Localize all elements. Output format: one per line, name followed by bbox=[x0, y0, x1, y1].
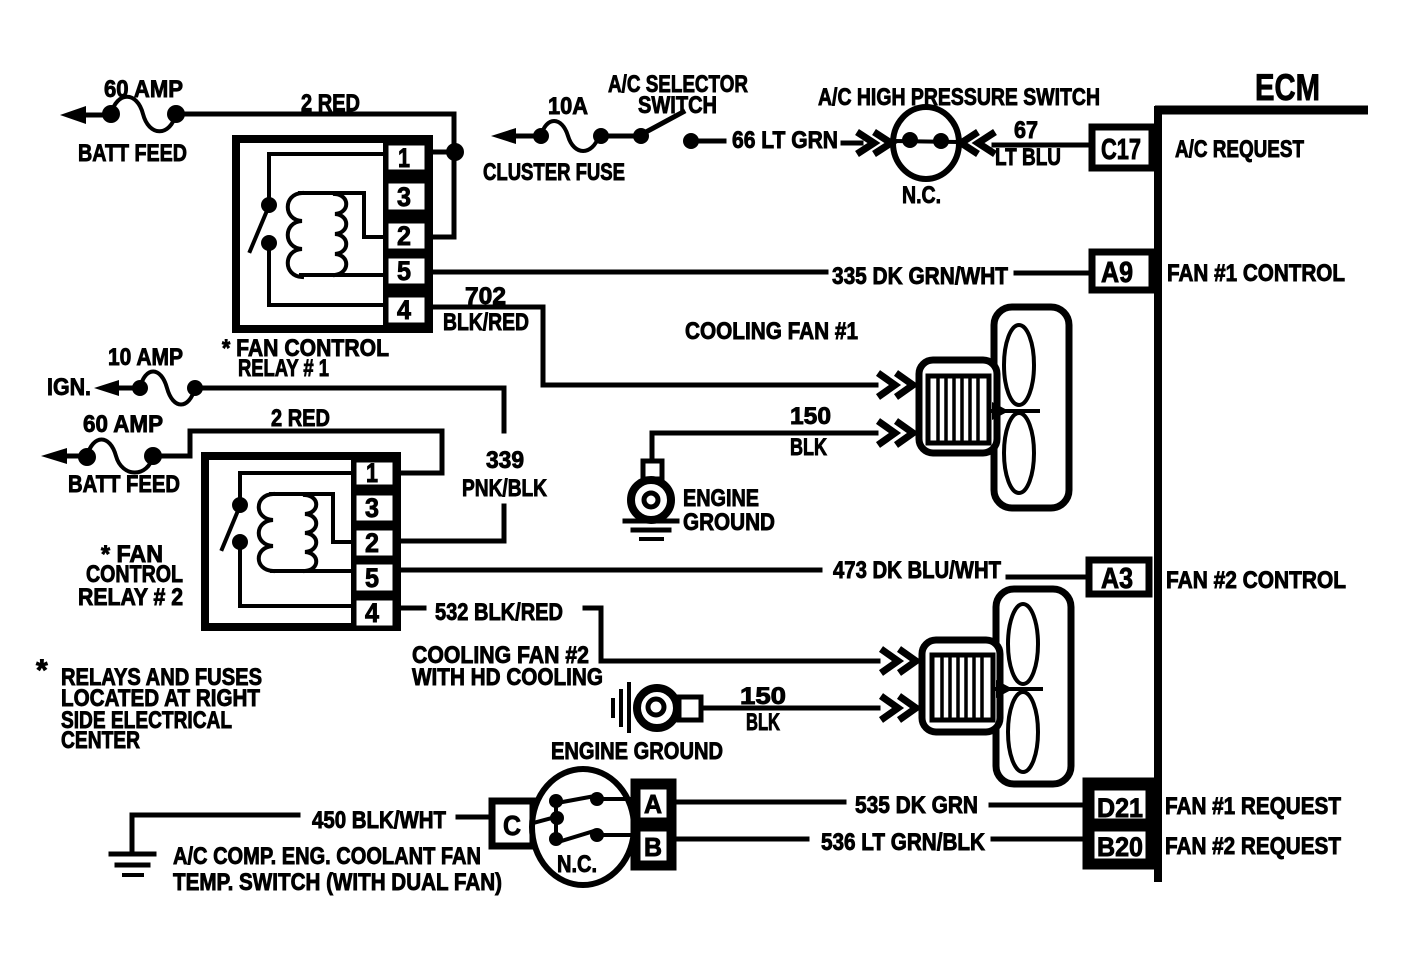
wire 535 right segment into D21 bbox=[991, 803, 1086, 808]
svg-text:COOLING FAN #1: COOLING FAN #1 bbox=[685, 318, 858, 345]
svg-text:B: B bbox=[644, 832, 662, 862]
relay K1 wire switch to pin4 bbox=[269, 250, 383, 305]
svg-text:ENGINE GROUND: ENGINE GROUND bbox=[551, 738, 723, 765]
svg-text:473 DK BLU/WHT: 473 DK BLU/WHT bbox=[833, 557, 1001, 584]
wire 473 DK BLU/WHT left segment bbox=[401, 568, 820, 573]
connector D21 box bbox=[1092, 788, 1148, 823]
svg-text:BATT FEED: BATT FEED bbox=[68, 471, 180, 498]
svg-text:450 BLK/WHT: 450 BLK/WHT bbox=[312, 807, 446, 834]
svg-text:339: 339 bbox=[486, 447, 524, 474]
svg-text:BLK: BLK bbox=[746, 709, 780, 736]
svg-text:2 RED: 2 RED bbox=[301, 90, 360, 117]
wire 67 LT BLU to C17 bbox=[994, 143, 1091, 148]
svg-text:C17: C17 bbox=[1101, 134, 1141, 166]
fuse F2 10A cluster fuse arrow bbox=[491, 128, 541, 144]
relay K1 pin 1 box bbox=[386, 143, 427, 173]
svg-text:WITH HD COOLING: WITH HD COOLING bbox=[412, 664, 603, 691]
wire IGN to 339 bbox=[203, 388, 504, 431]
svg-text:FAN #2 CONTROL: FAN #2 CONTROL bbox=[1166, 567, 1346, 594]
engine ground G2 symbol bbox=[613, 684, 701, 731]
wire 536 right segment into B20 bbox=[993, 837, 1086, 842]
connector A/B container bbox=[634, 782, 673, 867]
svg-text:1: 1 bbox=[398, 143, 410, 173]
relay K1 pin 5 box bbox=[386, 256, 427, 286]
connector B20 box bbox=[1092, 829, 1148, 862]
svg-text:CENTER: CENTER bbox=[61, 727, 140, 754]
svg-text:TEMP. SWITCH (WITH DUAL FAN): TEMP. SWITCH (WITH DUAL FAN) bbox=[173, 869, 502, 896]
svg-text:GROUND: GROUND bbox=[683, 509, 775, 536]
svg-text:N.C.: N.C. bbox=[902, 182, 941, 209]
relay K1 switch blade bbox=[250, 213, 266, 251]
svg-text:SWITCH: SWITCH bbox=[638, 92, 717, 119]
svg-text:A/C COMP. ENG. COOLANT FAN: A/C COMP. ENG. COOLANT FAN bbox=[173, 843, 481, 870]
connector C17 box bbox=[1092, 127, 1152, 168]
connector chevrons pressure switch right bbox=[961, 132, 995, 154]
connector A9 box bbox=[1092, 252, 1152, 290]
relay K2 pin 3 box bbox=[354, 493, 395, 523]
cooling fan M1 blades bbox=[992, 325, 1038, 493]
relay K2 coil bbox=[259, 494, 351, 571]
svg-text:532 BLK/RED: 532 BLK/RED bbox=[435, 599, 563, 626]
wire 536 LT GRN/BLK left segment bbox=[674, 837, 807, 842]
relay K2 pin 2 box bbox=[354, 528, 395, 558]
svg-text:1: 1 bbox=[366, 458, 378, 488]
fuse F2 10A symbol bbox=[533, 121, 609, 151]
relay K1 pin 3 box bbox=[386, 181, 427, 212]
svg-text:66 LT GRN: 66 LT GRN bbox=[732, 127, 838, 154]
wire 339 PNK/BLK to relay2 pin2 bbox=[401, 506, 504, 541]
svg-text:60 AMP: 60 AMP bbox=[83, 411, 163, 438]
connector chevrons fan2 top bbox=[881, 649, 916, 673]
svg-text:ENGINE: ENGINE bbox=[683, 485, 759, 512]
svg-text:2: 2 bbox=[397, 221, 411, 251]
svg-text:IGN.: IGN. bbox=[47, 374, 91, 401]
fuse F4 60 AMP batt feed 2 arrow bbox=[41, 448, 87, 464]
relay K2 pin 4 box bbox=[354, 598, 395, 628]
svg-text:A/C REQUEST: A/C REQUEST bbox=[1175, 136, 1304, 163]
wire 2 RED to relay2 pin1 bbox=[160, 431, 442, 473]
chassis ground G3 bbox=[111, 815, 154, 875]
svg-text:ECM: ECM bbox=[1255, 67, 1320, 108]
svg-text:A/C HIGH PRESSURE SWITCH: A/C HIGH PRESSURE SWITCH bbox=[818, 84, 1100, 111]
svg-text:C: C bbox=[503, 810, 521, 841]
relay K2 pin column background bbox=[351, 456, 401, 627]
svg-text:BLK/RED: BLK/RED bbox=[443, 309, 529, 336]
svg-text:N.C.: N.C. bbox=[557, 851, 597, 878]
svg-text:4: 4 bbox=[365, 598, 379, 628]
wire 473 right segment into A3 bbox=[1008, 575, 1089, 580]
temp switch SW3 contacts bbox=[533, 792, 637, 846]
temp switch SW3 body bbox=[532, 769, 634, 885]
connector chevrons fan2 bottom bbox=[881, 696, 916, 720]
svg-text:4: 4 bbox=[397, 295, 411, 325]
connector A box bbox=[638, 787, 669, 820]
wire 150 BLK to fan2 bbox=[701, 706, 878, 711]
svg-text:FAN #1 CONTROL: FAN #1 CONTROL bbox=[1167, 260, 1345, 287]
cooling fan motor M2 core bbox=[932, 655, 993, 720]
connector chevrons into pressure switch left bbox=[857, 132, 891, 154]
relay K2 switch contact dots bbox=[232, 497, 248, 550]
connector chevrons fan1 top bbox=[878, 373, 913, 397]
svg-text:PNK/BLK: PNK/BLK bbox=[462, 475, 548, 502]
relay K2 inner wire pin1 to switch bbox=[240, 473, 351, 498]
engine ground G1 symbol bbox=[625, 461, 677, 539]
svg-text:2: 2 bbox=[365, 528, 379, 558]
relay K1 pin 2 box bbox=[386, 221, 427, 251]
relay K1 coil bbox=[288, 193, 383, 277]
svg-text:3: 3 bbox=[365, 493, 379, 523]
svg-text:150: 150 bbox=[790, 403, 831, 430]
wire 532 BLK/RED stub from relay2 pin4 bbox=[401, 606, 424, 611]
A/C selector switch S1 bbox=[607, 112, 724, 149]
fuse F1 60 AMP batt feed arrow bbox=[60, 106, 111, 124]
svg-text:A3: A3 bbox=[1101, 563, 1133, 595]
svg-text:5: 5 bbox=[397, 256, 411, 286]
wire 2 RED to relay1 bbox=[185, 114, 454, 237]
svg-text:536 LT GRN/BLK: 536 LT GRN/BLK bbox=[821, 829, 986, 856]
connector chevrons fan1 bottom bbox=[878, 421, 913, 445]
svg-text:BATT FEED: BATT FEED bbox=[78, 140, 187, 167]
connector A3 box bbox=[1089, 560, 1149, 595]
wire 450 BLK/WHT right bbox=[458, 815, 492, 820]
ECM top bar bbox=[1155, 106, 1368, 115]
relay K1 pin 4 box bbox=[386, 295, 427, 325]
svg-text:335 DK GRN/WHT: 335 DK GRN/WHT bbox=[832, 263, 1008, 290]
svg-text:150: 150 bbox=[740, 683, 786, 710]
wire 535 DK GRN left segment bbox=[674, 800, 844, 805]
svg-text:D21: D21 bbox=[1097, 793, 1143, 823]
svg-text:LT BLU: LT BLU bbox=[995, 144, 1061, 171]
fuse F4 60 AMP symbol bbox=[78, 440, 162, 473]
cooling fan motor M1 core bbox=[928, 376, 989, 443]
svg-text:2 RED: 2 RED bbox=[271, 405, 330, 432]
cooling fan M2 blades bbox=[996, 604, 1041, 772]
relay K1 switch contact dots bbox=[261, 197, 277, 251]
connector B box bbox=[638, 829, 669, 863]
junction dot node 2RED/pin1 bbox=[433, 143, 464, 161]
fuse F3 10 AMP ign arrow bbox=[94, 380, 140, 396]
cooling fan motor M2 shroud bbox=[996, 589, 1071, 784]
svg-text:BLK: BLK bbox=[790, 434, 827, 461]
wire 702 BLK/RED from relay1 pin4 to fan1 bbox=[433, 307, 876, 385]
relay K1 pin column background bbox=[383, 139, 433, 329]
svg-text:B20: B20 bbox=[1097, 832, 1143, 862]
wire 532 BLK/RED to fan2 bbox=[585, 608, 878, 661]
relay K2 switch blade bbox=[222, 513, 237, 549]
svg-text:RELAY # 1: RELAY # 1 bbox=[238, 355, 329, 382]
svg-text:60 AMP: 60 AMP bbox=[104, 76, 183, 103]
cooling fan motor M2 housing bbox=[922, 640, 1000, 732]
wire into pressure switch bbox=[843, 141, 861, 146]
svg-text:FAN #2 REQUEST: FAN #2 REQUEST bbox=[1165, 833, 1341, 860]
wire 335 DK GRN/WHT left segment bbox=[433, 270, 826, 275]
relay K1 outer box bbox=[236, 139, 429, 329]
svg-text:A: A bbox=[644, 789, 662, 819]
svg-text:67: 67 bbox=[1014, 117, 1038, 144]
svg-text:FAN #1 REQUEST: FAN #1 REQUEST bbox=[1165, 793, 1341, 820]
relay K2 outer box bbox=[205, 456, 397, 627]
ECM main vertical line bbox=[1154, 106, 1162, 882]
relay K2 pin 5 box bbox=[354, 562, 395, 593]
svg-text:A9: A9 bbox=[1101, 257, 1133, 289]
fuse F3 10 AMP symbol bbox=[132, 372, 203, 405]
wire 335 right segment into A9 bbox=[1016, 271, 1091, 276]
connector C box bbox=[492, 801, 533, 846]
A/C high pressure switch SW2 body bbox=[893, 107, 959, 179]
wire 450 BLK/WHT left bbox=[132, 813, 298, 818]
svg-text:RELAY # 2: RELAY # 2 bbox=[78, 584, 183, 611]
relay K2 wire switch to pin4 bbox=[240, 549, 351, 606]
svg-text:5: 5 bbox=[365, 563, 379, 593]
cooling fan motor M1 shroud bbox=[994, 307, 1069, 508]
fuse F1 60 AMP symbol bbox=[102, 97, 185, 132]
connector D21/B20 container bbox=[1086, 781, 1156, 866]
relay K2 pin 1 box bbox=[354, 458, 395, 488]
svg-text:535 DK GRN: 535 DK GRN bbox=[855, 792, 978, 819]
relay K1 inner wire pin1 to switch bbox=[269, 154, 383, 198]
engine ground G1 wire 150 BLK bbox=[652, 433, 876, 462]
svg-text:*: * bbox=[36, 654, 48, 687]
svg-text:CLUSTER FUSE: CLUSTER FUSE bbox=[483, 159, 625, 186]
svg-text:10A: 10A bbox=[548, 93, 588, 120]
svg-text:3: 3 bbox=[397, 182, 411, 212]
cooling fan motor M1 housing bbox=[919, 360, 997, 453]
svg-text:10 AMP: 10 AMP bbox=[108, 344, 183, 371]
svg-text:702: 702 bbox=[465, 283, 506, 310]
